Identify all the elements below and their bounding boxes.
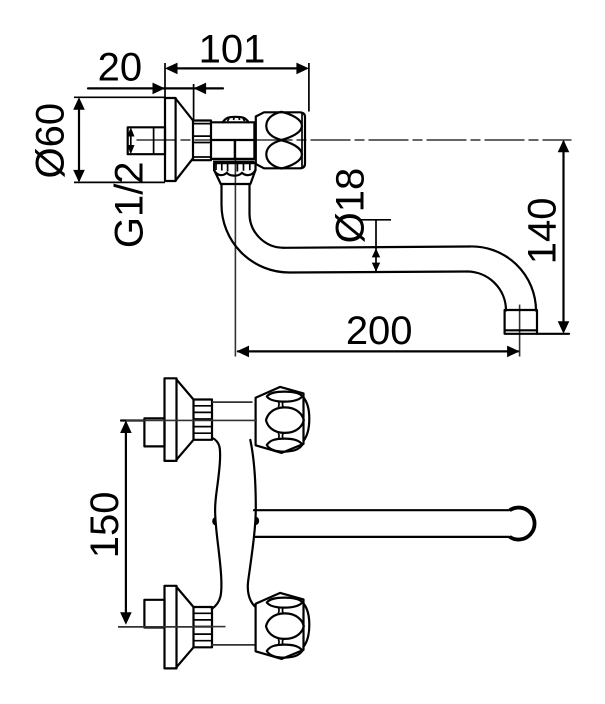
- bottom wall assembly: [165, 586, 213, 669]
- spout vertical leg: [222, 184, 250, 214]
- spout S-bend left: [222, 205, 290, 273]
- mixer body left edge: [212, 438, 222, 609]
- spout right bend: [467, 246, 536, 310]
- spout horizontal run: [284, 247, 469, 273]
- spout joint bump right: [256, 517, 259, 524]
- G1/2 thread dimension arrows: [127, 127, 134, 154]
- escutcheon flange plate: [165, 98, 176, 181]
- top handle (front view): [256, 387, 310, 453]
- dim D60: [28, 97, 165, 182]
- spout tube rounded cap: [510, 508, 535, 540]
- svg-text:Ø18: Ø18: [328, 168, 372, 244]
- spout joint bump left: [213, 518, 216, 525]
- svg-text:G1/2: G1/2: [108, 161, 152, 248]
- bonnet dome: [223, 117, 249, 123]
- svg-text:20: 20: [98, 46, 143, 90]
- bottom handle: [256, 593, 310, 659]
- valve body: [211, 122, 254, 159]
- body silhouette tangent top: [212, 401, 253, 403]
- svg-text:200: 200: [346, 309, 413, 353]
- body silhouette tangent bottom: [212, 644, 255, 646]
- mixer body right edge: [248, 440, 256, 606]
- centerline spout tip: [519, 305, 521, 357]
- handle lower lens: [266, 140, 302, 168]
- dim 150: [83, 420, 257, 627]
- knurled ring: [193, 121, 211, 161]
- dim 101: [165, 28, 309, 112]
- aerator tip: [505, 310, 537, 334]
- escutcheon cone: [176, 99, 193, 181]
- top wall nipple: [144, 418, 164, 446]
- dim D18: [328, 168, 391, 272]
- centerline main axis: [137, 139, 572, 141]
- dim 20: [88, 46, 223, 120]
- castellated nut: [213, 161, 256, 184]
- spout tube (front view): [254, 510, 509, 537]
- handle upper lens: [266, 112, 302, 140]
- bottom wall nipple (eccentric, offset up): [144, 600, 164, 628]
- svg-text:140: 140: [521, 197, 565, 264]
- svg-text:101: 101: [199, 28, 266, 72]
- handle (side view): [256, 112, 305, 168]
- dim 140: [521, 140, 570, 334]
- top wall assembly: plate, cone, knurled ring: [165, 378, 213, 461]
- centerline valve vertical axis: [234, 141, 236, 357]
- dim 200: [237, 309, 520, 357]
- svg-text:150: 150: [83, 491, 127, 558]
- G1/2 wall nipple: [128, 127, 165, 154]
- svg-text:Ø60: Ø60: [28, 103, 72, 179]
